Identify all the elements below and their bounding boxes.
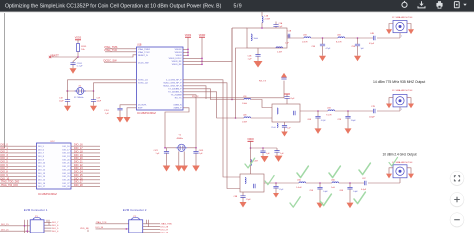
ground: [180, 166, 188, 172]
wire: [143, 223, 160, 225]
wire: [71, 155, 100, 157]
wire: [71, 152, 100, 154]
svg-text:DIO_7: DIO_7: [52, 222, 59, 224]
svg-text:1.8nH: 1.8nH: [242, 103, 248, 105]
svg-text:DIO_5: DIO_5: [52, 228, 59, 230]
svg-text:1.8nH: 1.8nH: [242, 122, 248, 124]
svg-text:22nH: 22nH: [271, 127, 276, 129]
svg-text:U1B: U1B: [137, 45, 142, 47]
wire: [0, 230, 30, 232]
wire: [71, 182, 100, 184]
wire: [0, 175, 37, 177]
svg-text:1.4nH: 1.4nH: [296, 187, 302, 189]
svg-text:X48M_N: X48M_N: [173, 105, 182, 107]
svg-text:VDDR: VDDR: [199, 35, 206, 37]
svg-text:0.5pF: 0.5pF: [369, 43, 375, 45]
wire: [77, 40, 79, 44]
wire: [0, 145, 37, 147]
wire: [300, 110, 328, 112]
svg-text:2.4nH: 2.4nH: [253, 161, 258, 163]
wire: [202, 28, 232, 61]
wire: [287, 37, 304, 39]
ground: [317, 203, 324, 209]
inductor inside balun3: [245, 178, 246, 184]
svg-text:1.5pF: 1.5pF: [246, 199, 252, 201]
ground: [240, 202, 247, 208]
wire: [0, 152, 37, 154]
svg-text:J3 SMA-HNCH-TG4: J3 SMA-HNCH-TG4: [392, 89, 413, 92]
svg-text:2_4_GHZ_RF_P: 2_4_GHZ_RF_P: [166, 80, 182, 82]
svg-text:JTAG_TMS2: JTAG_TMS2: [138, 48, 151, 51]
svg-text:7.5nH: 7.5nH: [326, 115, 332, 117]
svg-text:DIO_20: DIO_20: [62, 159, 70, 161]
capacitor C101: [73, 57, 78, 63]
wire: [0, 159, 37, 161]
svg-text:C4B: C4B: [370, 33, 375, 35]
inductor: [244, 117, 251, 118]
capacitor C8B: [242, 192, 244, 196]
ground: [315, 128, 322, 134]
capacitor C1B2: [67, 91, 69, 100]
wire: [50, 55, 137, 57]
inductor L3B: [304, 37, 311, 38]
svg-text:DIO_16: DIO_16: [38, 183, 46, 185]
capacitor above balun2: [286, 98, 288, 104]
wire 2.4G N: [183, 83, 240, 189]
svg-text:DIO_5: DIO_5: [38, 146, 45, 148]
button fit: [450, 171, 464, 186]
svg-text:U1C: U1C: [51, 141, 56, 143]
svg-text:VDDS: VDDS: [185, 35, 192, 37]
wire: [71, 149, 100, 151]
svg-text:DIO_25: DIO_25: [62, 176, 70, 178]
svg-text:DCOUPL: DCOUPL: [138, 105, 148, 107]
svg-text:DIO_21: DIO_21: [62, 163, 70, 165]
toolbar icon print: [436, 1, 442, 8]
wire: [251, 117, 272, 119]
svg-text:DIO_28: DIO_28: [161, 227, 169, 229]
inductor L2B: [251, 34, 252, 41]
svg-text:14 dBm 775 MHz 935 MHZ Output: 14 dBm 775 MHz 935 MHZ Output: [373, 80, 425, 84]
capacitor shunt: [347, 111, 349, 116]
annotation check: [290, 197, 300, 207]
wire: [146, 220, 148, 224]
wire: [183, 63, 202, 65]
capacitor C481: [195, 148, 197, 152]
wire: [0, 225, 30, 227]
svg-text:JTAG_TCK: JTAG_TCK: [96, 221, 108, 224]
wire: [44, 227, 52, 229]
ground: [408, 104, 414, 109]
ground: [70, 68, 77, 74]
toolbar icon more: [454, 2, 466, 8]
wire: [345, 37, 374, 39]
svg-text:TX_20DBM: TX_20DBM: [171, 95, 182, 97]
svg-text:XOSC_Q1: XOSC_Q1: [138, 80, 149, 82]
wire: [389, 98, 393, 104]
capacitor inside balun2: [294, 111, 296, 115]
wire: [377, 110, 400, 112]
svg-text:3.6pF: 3.6pF: [351, 120, 357, 122]
inductor: [244, 98, 251, 99]
svg-text:12pF: 12pF: [59, 100, 64, 102]
wire pin1: [399, 33, 401, 38]
toolbar icon rotate: [402, 1, 407, 8]
wire: [0, 172, 37, 174]
svg-text:10 dBm 2.4 GHz Output: 10 dBm 2.4 GHz Output: [383, 153, 417, 157]
ground: [281, 132, 288, 137]
wire: [389, 168, 393, 174]
ground: [386, 104, 392, 109]
wire: [0, 165, 37, 167]
svg-text:48MHz: 48MHz: [177, 138, 183, 140]
svg-text:SUB-1_GHZ_RF_P: SUB-1_GHZ_RF_P: [163, 83, 182, 85]
wire: [178, 151, 180, 165]
wire 2.4G P: [183, 80, 240, 177]
svg-text:1.4pF: 1.4pF: [323, 191, 329, 193]
wire: [143, 229, 160, 231]
svg-text:DIO_17: DIO_17: [62, 149, 70, 151]
capacitor C7B series: [373, 109, 375, 113]
svg-text:EVM Connector 1: EVM Connector 1: [24, 208, 48, 212]
annotation check: [265, 175, 274, 184]
svg-text:Optimizing the SimpleLink CC13: Optimizing the SimpleLink CC1352P for Co…: [5, 4, 222, 10]
wire: [335, 110, 374, 112]
ground: [347, 203, 354, 209]
crystal Y1 32.768kHz: [75, 88, 86, 95]
IC U1B CC1352P1F3RGZ: [137, 45, 184, 116]
svg-text:RX_TX: RX_TX: [259, 80, 267, 82]
inductor L1B: [261, 12, 263, 17]
svg-text:VDDR_RF: VDDR_RF: [172, 61, 183, 63]
inductor below balun2: [277, 124, 278, 128]
svg-text:RX_TX: RX_TX: [175, 98, 182, 100]
wire loop balun1: [247, 28, 287, 48]
capacitor C1A top: [275, 26, 277, 28]
capacitor C1B: [287, 35, 290, 37]
wire: [104, 61, 137, 63]
svg-text:DIO_8: DIO_8: [38, 156, 45, 158]
wire: [0, 182, 37, 184]
capacitor shunt: [357, 38, 359, 44]
ground: [319, 56, 326, 62]
capacitor C2B: [257, 48, 259, 55]
wire: [231, 28, 233, 100]
svg-text:0.1 µF: 0.1 µF: [77, 66, 83, 68]
capacitor shunt: [319, 183, 321, 187]
crystal Y2 48MHz: [176, 144, 187, 151]
wire: [377, 37, 400, 39]
svg-text:DIO_26: DIO_26: [161, 232, 169, 233]
capacitor shunt: [349, 183, 351, 187]
annotation check: [329, 166, 340, 178]
capacitor inside balun3: [254, 184, 256, 188]
wire: [143, 226, 160, 228]
svg-text:VDDR: VDDR: [247, 139, 254, 141]
svg-text:12pF: 12pF: [97, 100, 102, 102]
svg-text:C471: C471: [154, 150, 159, 152]
annotation check: [297, 166, 308, 178]
svg-text:VDDS_DCDC: VDDS_DCDC: [169, 58, 182, 60]
svg-text:VDDS: VDDS: [75, 38, 82, 40]
svg-text:JTAG_TDI_DIO: JTAG_TDI_DIO: [1, 184, 19, 187]
svg-text:0.4pF: 0.4pF: [361, 189, 367, 191]
svg-text:DIO_4: DIO_4: [52, 231, 59, 233]
capacitor below balun2: [284, 122, 286, 126]
annotation check: [320, 194, 331, 206]
svg-text:DIO_27: DIO_27: [161, 230, 169, 232]
wire: [183, 60, 202, 62]
svg-text:C7B: C7B: [371, 106, 376, 108]
svg-text:RESET_N: RESET_N: [138, 55, 148, 57]
wire: [71, 186, 100, 188]
wire: [0, 162, 37, 164]
wire: [251, 100, 272, 108]
svg-text:DIO_18: DIO_18: [62, 153, 70, 155]
wire: [77, 52, 79, 58]
capacitor C1B3: [93, 91, 95, 100]
svg-text:DIO_28: DIO_28: [74, 184, 83, 187]
wire: [66, 90, 94, 92]
inductor L5A: [299, 182, 306, 183]
ground: [386, 174, 392, 179]
wire loop balun2: [272, 104, 300, 122]
ground: [408, 174, 414, 179]
wire: [71, 179, 100, 181]
svg-text:SUB-1_GHZ_RF_N: SUB-1_GHZ_RF_N: [163, 86, 182, 88]
wire: [46, 220, 48, 223]
svg-text:DIO_9: DIO_9: [38, 159, 45, 161]
wire: [44, 221, 52, 223]
wire: [250, 148, 252, 174]
wire: [105, 51, 137, 53]
svg-text:C481: C481: [199, 150, 204, 152]
wire: [24, 220, 26, 233]
ground: [254, 61, 263, 68]
svg-text:JTAG_TCK2: JTAG_TCK2: [138, 51, 150, 54]
svg-text:VDDS2: VDDS2: [175, 49, 183, 51]
svg-text:DIO_19: DIO_19: [62, 156, 70, 158]
svg-text:DIO_27: DIO_27: [62, 183, 70, 185]
svg-text:100pF: 100pF: [369, 117, 375, 119]
wire: [143, 232, 160, 234]
svg-text:DCDC_SW: DCDC_SW: [104, 58, 118, 62]
svg-text:JTAG_TCK: JTAG_TCK: [104, 48, 117, 52]
svg-text:DIO_6: DIO_6: [38, 149, 45, 151]
inductor L4B: [276, 47, 283, 48]
inductor L5B: [332, 182, 339, 183]
wire: [183, 81, 284, 98]
wire: [183, 86, 206, 99]
svg-text:R101: R101: [81, 46, 87, 48]
wire: [368, 182, 400, 184]
IC U1C CC1352P1F3RGZ: [37, 141, 72, 196]
svg-text:1.4pF: 1.4pF: [353, 191, 359, 193]
wire: [226, 100, 244, 119]
ground: [175, 166, 183, 172]
svg-text:1: 1: [401, 109, 402, 111]
wire: [389, 24, 393, 30]
wire: [96, 223, 129, 225]
annotation check: [245, 158, 255, 168]
svg-text:DIO_26: DIO_26: [62, 180, 70, 182]
svg-text:DIO_22: DIO_22: [62, 166, 70, 168]
svg-text:2.4nH: 2.4nH: [265, 19, 271, 21]
junction: [231, 99, 233, 101]
svg-text:VDD_5B: VDD_5B: [80, 228, 89, 230]
wire: [71, 159, 100, 161]
annotation check: [354, 192, 365, 204]
svg-text:DIO_12: DIO_12: [38, 169, 46, 171]
ground: [345, 128, 352, 134]
capacitor shunt: [317, 111, 319, 116]
wire: [68, 80, 137, 91]
svg-text:2.4nH: 2.4nH: [277, 52, 283, 54]
wire: [0, 186, 37, 188]
capacitor shunt: [322, 38, 324, 44]
wire: [71, 169, 100, 171]
svg-text:DIO_17: DIO_17: [38, 186, 46, 188]
svg-text:DIO_14: DIO_14: [38, 176, 46, 178]
svg-text:TX_20DBM_N: TX_20DBM_N: [168, 92, 182, 94]
wire sub1G TX N: [183, 92, 228, 118]
wire: [127, 108, 137, 117]
ground: [275, 156, 283, 162]
capacitor: [276, 148, 278, 151]
svg-text:J2 SMA-HNCH-TG4: J2 SMA-HNCH-TG4: [392, 16, 413, 19]
svg-text:JTAG_TMS: JTAG_TMS: [161, 223, 173, 226]
inductor inside balun2: [277, 108, 278, 114]
svg-text:VDDR: VDDR: [176, 55, 182, 57]
ground: [261, 156, 269, 162]
wire: [96, 228, 129, 230]
button minus: [450, 213, 464, 228]
ground: [163, 166, 171, 172]
capacitor: [281, 77, 286, 79]
wire: [71, 162, 100, 164]
capacitor shunt: [275, 183, 277, 186]
wire: [120, 105, 137, 109]
svg-text:DIO_28: DIO_28: [62, 186, 70, 188]
capacitor: [262, 148, 264, 151]
wire: [0, 179, 37, 181]
wire: [71, 172, 100, 174]
wire: [94, 83, 137, 91]
svg-text:1: 1: [401, 36, 402, 38]
wire: [71, 175, 100, 177]
svg-text:DIO_7: DIO_7: [38, 153, 45, 155]
wire: [183, 51, 188, 53]
wire: [71, 145, 100, 147]
wire: [87, 230, 89, 232]
ground: [90, 106, 97, 112]
svg-text:L1B: L1B: [265, 16, 269, 18]
wire: [251, 147, 278, 149]
ground: [192, 166, 200, 172]
svg-text:EGP: EGP: [138, 108, 143, 110]
svg-text:0.1µF: 0.1µF: [290, 98, 296, 100]
svg-text:EVM Connector 2: EVM Connector 2: [123, 208, 147, 212]
capacitor C151: [117, 108, 122, 110]
svg-text:X48M_P: X48M_P: [174, 108, 183, 110]
wire: [339, 182, 364, 184]
svg-text:32.768kHz: 32.768kHz: [74, 97, 84, 99]
ground: [354, 56, 361, 62]
ground up: [281, 73, 287, 78]
svg-text:DIO_11: DIO_11: [38, 166, 46, 168]
svg-text:8.2nH: 8.2nH: [336, 42, 342, 44]
resistor R101: [77, 44, 80, 52]
wire: [183, 57, 202, 59]
svg-text:CC1352P1F3RGZ: CC1352P1F3RGZ: [38, 194, 57, 196]
wire: [183, 54, 188, 56]
capacitor C4B series: [373, 36, 375, 40]
wire: [236, 48, 248, 118]
terminal: [49, 56, 51, 58]
svg-text:DCDC_SW: DCDC_SW: [138, 63, 149, 65]
svg-text:TX_20DBM_P: TX_20DBM_P: [168, 89, 182, 91]
svg-text:DIO_10: DIO_10: [38, 163, 46, 165]
wire: [183, 48, 188, 50]
wire: [311, 37, 338, 39]
wire sub1G TX P: [183, 89, 226, 100]
schematic sheet frame line: [4, 13, 6, 148]
ground: [273, 193, 279, 198]
svg-text:VDDS3: VDDS3: [175, 52, 183, 54]
inductor: [251, 160, 252, 166]
ground: [386, 29, 392, 34]
wire: [0, 169, 37, 171]
wire: [44, 224, 52, 226]
ground: [408, 29, 414, 34]
svg-text:C2B: C2B: [248, 55, 253, 57]
wire: [264, 182, 299, 184]
svg-text:DIO_15: DIO_15: [38, 180, 46, 182]
svg-text:4.7pF: 4.7pF: [326, 48, 332, 50]
svg-text:DIO_16: DIO_16: [62, 146, 70, 148]
wire: [0, 149, 37, 151]
ground: [64, 106, 71, 112]
toolbar background: [0, 0, 474, 12]
wire: [105, 48, 137, 50]
svg-text:5 / 9: 5 / 9: [234, 4, 242, 10]
ground: [124, 117, 131, 123]
svg-text:DIO_6: DIO_6: [52, 225, 59, 227]
svg-text:10nH: 10nH: [254, 38, 259, 40]
wire: [306, 182, 332, 184]
svg-text:4.7pF: 4.7pF: [321, 120, 327, 122]
svg-text:XOSC_Q2: XOSC_Q2: [138, 83, 149, 85]
capacitor C87 series: [364, 181, 366, 185]
button plus: [450, 193, 464, 208]
svg-text:1nH: 1nH: [331, 187, 335, 189]
capacitor C471: [166, 148, 168, 152]
annotation check: [389, 157, 398, 166]
svg-text:DIO_23: DIO_23: [62, 169, 70, 171]
wire: [232, 27, 247, 29]
wire: [71, 165, 100, 167]
wire: [165, 147, 196, 149]
svg-text:CC1352P1F3RGZ: CC1352P1F3RGZ: [137, 113, 156, 115]
wire: [183, 151, 185, 165]
annotation check: [359, 163, 370, 175]
toolbar icon download: [418, 1, 425, 8]
svg-text:DIO_13: DIO_13: [38, 173, 46, 175]
inductor L5B: [328, 110, 335, 111]
inductor L6B: [338, 37, 345, 38]
wire: [183, 95, 196, 148]
wire: [44, 230, 52, 232]
